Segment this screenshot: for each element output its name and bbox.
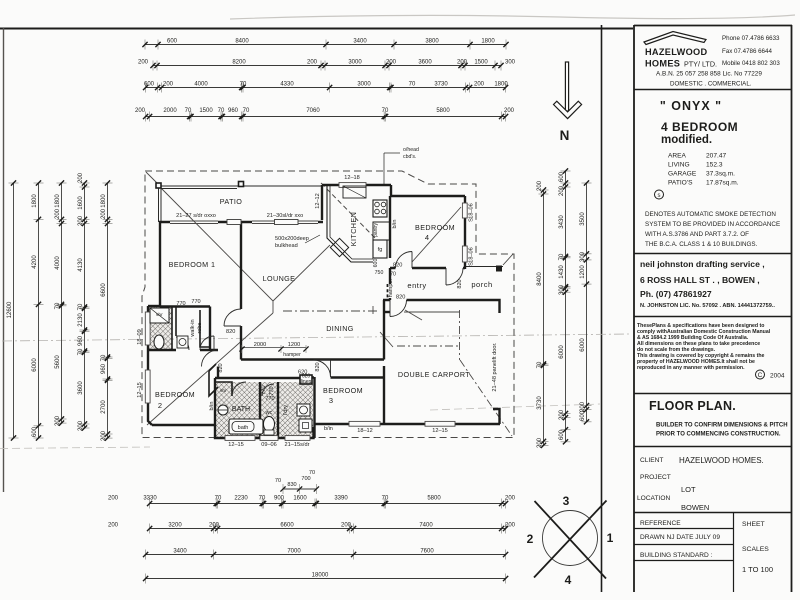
svg-text:70: 70 <box>259 496 266 502</box>
ensuite / wir north wall <box>160 305 210 307</box>
svg-text:l'dry: l'dry <box>283 405 289 415</box>
svg-text:FLOOR PLAN.: FLOOR PLAN. <box>649 399 736 413</box>
svg-text:3600: 3600 <box>78 381 84 395</box>
bath shower corner <box>216 382 232 396</box>
svg-text:300: 300 <box>559 284 565 295</box>
bedroom2 west wall with window gap <box>148 350 152 425</box>
svg-text:4: 4 <box>565 573 572 587</box>
svg-text:fg: fg <box>378 247 383 253</box>
svg-text:70: 70 <box>390 272 396 278</box>
svg-text:HAZELWOOD: HAZELWOOD <box>645 47 707 57</box>
stove <box>373 200 387 217</box>
svg-text:600: 600 <box>144 82 155 88</box>
svg-text:70: 70 <box>218 108 225 114</box>
bed2 robe corner angled <box>209 364 218 396</box>
svg-text:3000: 3000 <box>357 82 371 88</box>
svg-text:70: 70 <box>78 348 84 355</box>
hall south / bed3 north wall <box>232 376 384 379</box>
svg-text:shr: shr <box>156 312 163 318</box>
svg-text:N. JOHNSTON LIC. No. 57092 . A: N. JOHNSTON LIC. No. 57092 . ABN. 144413… <box>640 303 775 309</box>
porch slab edge thin line <box>466 266 503 268</box>
smoke detector symbol <box>655 190 664 199</box>
svg-text:SHEET: SHEET <box>742 521 765 528</box>
svg-text:770: 770 <box>265 396 274 402</box>
svg-text:200: 200 <box>580 401 586 412</box>
svg-text:1800: 1800 <box>32 194 38 208</box>
svg-text:3800: 3800 <box>425 39 439 45</box>
svg-text:modified.: modified. <box>661 134 712 146</box>
page frame left border <box>3 28 5 492</box>
svg-text:600: 600 <box>373 259 379 268</box>
carport window 12-15 <box>425 421 455 426</box>
svg-text:1600: 1600 <box>293 496 307 502</box>
svg-text:1: 1 <box>607 531 614 545</box>
svg-text:cbd's.: cbd's. <box>403 154 416 160</box>
bedroom2 door <box>202 350 219 367</box>
svg-text:18–12: 18–12 <box>357 428 373 434</box>
wc east wall <box>277 382 279 438</box>
svg-text:BEDROOM 1: BEDROOM 1 <box>169 260 216 269</box>
svg-text:6000: 6000 <box>559 345 565 359</box>
ens/wir south wall <box>148 349 218 351</box>
lounge sliding door 21-30 <box>252 220 318 222</box>
svg-text:12600: 12600 <box>7 301 13 318</box>
svg-text:6600: 6600 <box>280 523 294 529</box>
svg-text:200: 200 <box>55 415 61 426</box>
dimension chain right col 1 <box>537 180 549 448</box>
svg-text:4130: 4130 <box>78 258 84 272</box>
svg-text:600: 600 <box>580 410 586 421</box>
dimension chain left col 3 <box>55 180 67 426</box>
svg-text:750: 750 <box>375 270 384 276</box>
svg-text:2: 2 <box>158 401 162 410</box>
bedroom1 east wall <box>240 222 242 360</box>
svg-text:b/in: b/in <box>324 426 333 432</box>
svg-text:12–15: 12–15 <box>432 428 448 434</box>
dimension chain top row 3 <box>143 82 508 93</box>
svg-text:hamper: hamper <box>388 279 394 298</box>
svg-text:200: 200 <box>135 108 146 114</box>
svg-text:BUILDING STANDARD :: BUILDING STANDARD : <box>640 552 713 559</box>
svg-text:3000: 3000 <box>348 60 362 66</box>
svg-text:820: 820 <box>396 295 405 301</box>
svg-text:DENOTES AUTOMATIC SMOKE DETECT: DENOTES AUTOMATIC SMOKE DETECTION <box>645 211 776 218</box>
title block frame <box>634 25 792 592</box>
faint construction line horizontal lower <box>0 447 150 449</box>
bedroom3 / carport south wall with window piers <box>314 423 501 425</box>
bedroom4 east wall with window piers <box>464 196 466 269</box>
svg-text:1 TO 100: 1 TO 100 <box>742 565 773 574</box>
svg-text:600: 600 <box>32 426 38 437</box>
svg-text:THE B.C.A. CLASS 1 & 10 BUILDI: THE B.C.A. CLASS 1 & 10 BUILDINGS. <box>645 241 758 248</box>
svg-text:200: 200 <box>559 185 565 196</box>
svg-text:200: 200 <box>138 60 149 66</box>
svg-text:A.B.N. 25 057 258 858 Lic.: A.B.N. 25 057 258 858 Lic. No 77229 <box>656 71 762 78</box>
svg-text:18–06: 18–06 <box>469 247 475 263</box>
svg-text:3430: 3430 <box>559 215 565 229</box>
svg-text:3600: 3600 <box>418 60 432 66</box>
roof ridge vertical stub <box>272 301 274 313</box>
svg-text:600: 600 <box>559 171 565 182</box>
windows: thin double lines in wall gaps <box>145 183 467 441</box>
hazelwood roof chevron logo <box>644 32 706 45</box>
tiled floor bathroom wc laundry block <box>216 382 313 437</box>
svg-text:6000: 6000 <box>580 338 586 352</box>
wc door arc <box>262 384 274 396</box>
svg-text:SCALES: SCALES <box>742 546 769 553</box>
entry front door <box>446 268 463 285</box>
svg-text:N: N <box>560 128 570 143</box>
svg-text:17.87sq.m.: 17.87sq.m. <box>706 180 739 187</box>
svg-text:200: 200 <box>537 180 543 191</box>
svg-text:200: 200 <box>457 60 468 66</box>
svg-text:wc: wc <box>265 410 273 416</box>
svg-text:7600: 7600 <box>420 549 434 555</box>
west wall bedroom1 <box>159 222 161 306</box>
svg-text:70: 70 <box>78 303 84 310</box>
svg-text:HOMES: HOMES <box>645 59 680 69</box>
svg-text:BEDROOM: BEDROOM <box>415 223 455 232</box>
carport roof dash-dot lines <box>397 310 512 436</box>
svg-text:REFERENCE: REFERENCE <box>640 520 681 527</box>
dining south wall <box>241 358 384 360</box>
svg-text:4 BEDROOM: 4 BEDROOM <box>661 120 738 134</box>
copyright symbol 2004 <box>756 370 765 379</box>
svg-text:770: 770 <box>176 301 185 307</box>
bedroom4 door <box>396 252 413 269</box>
roof hip diagonal NW corner to valley point <box>161 188 273 301</box>
eave / roof dashed outline <box>142 171 514 438</box>
svg-text:LOT: LOT <box>681 485 696 494</box>
svg-text:C: C <box>758 372 763 379</box>
svg-text:200: 200 <box>101 430 107 441</box>
svg-text:2130: 2130 <box>78 313 84 327</box>
svg-text:DINING: DINING <box>326 324 354 333</box>
dimension chain bottom row 1 <box>108 496 516 509</box>
svg-text:70: 70 <box>240 82 247 88</box>
svg-text:GARAGE: GARAGE <box>668 171 697 178</box>
small sub-dimension tier 830/700 above bottom row 1 <box>275 470 319 494</box>
svg-text:70: 70 <box>101 354 107 361</box>
svg-text:200: 200 <box>386 60 397 66</box>
bedroom2 east wall <box>217 367 219 379</box>
kitchen bulkhead dashed diagonal <box>321 183 376 239</box>
svg-text:900: 900 <box>274 496 285 502</box>
svg-text:600: 600 <box>167 39 178 45</box>
svg-text:1800: 1800 <box>55 194 61 208</box>
svg-text:820: 820 <box>218 363 224 372</box>
svg-text:PRIOR TO COMMENCING CONSTRUCTI: PRIOR TO COMMENCING CONSTRUCTION. <box>656 432 781 438</box>
dimension chain bottom row 4 <box>143 573 508 584</box>
bedroom1 door <box>224 309 241 326</box>
svg-text:" ONYX ": " ONYX " <box>660 99 722 113</box>
svg-text:820: 820 <box>315 362 321 371</box>
svg-text:3400: 3400 <box>173 549 187 555</box>
svg-text:3390: 3390 <box>334 496 348 502</box>
svg-text:200: 200 <box>108 496 119 502</box>
svg-text:21–27 s/dr oxxo: 21–27 s/dr oxxo <box>176 213 216 219</box>
svg-text:6000: 6000 <box>32 358 38 372</box>
tiled floor ensuite <box>149 306 172 350</box>
dimension chain right col 3 <box>580 180 592 424</box>
north arrow <box>554 62 582 119</box>
svg-text:70: 70 <box>243 108 250 114</box>
svg-text:KITCHEN: KITCHEN <box>349 212 358 246</box>
wc window 09-06 <box>260 436 278 441</box>
carport door <box>390 300 407 317</box>
svg-text:7400: 7400 <box>419 523 433 529</box>
svg-text:PTY/ LTD.: PTY/ LTD. <box>684 60 717 69</box>
ensuite door <box>176 337 189 350</box>
svg-text:2: 2 <box>527 532 534 546</box>
svg-text:bulkhead: bulkhead <box>275 243 298 249</box>
svg-text:7000: 7000 <box>287 549 301 555</box>
roof hip diagonal porch corner <box>503 254 513 265</box>
svg-text:Fax 07.4786 6644: Fax 07.4786 6644 <box>722 48 772 55</box>
svg-text:1200: 1200 <box>580 265 586 279</box>
interior dim 2000 / 1200 with hamper <box>239 342 308 358</box>
svg-text:Ph. (07) 47861927: Ph. (07) 47861927 <box>640 289 712 299</box>
svg-text:5800: 5800 <box>436 108 450 114</box>
svg-text:3: 3 <box>329 396 333 405</box>
laundry door 21-15 <box>285 436 310 441</box>
svg-text:200: 200 <box>537 437 543 448</box>
svg-text:BATH: BATH <box>232 406 250 413</box>
bed2 window 12-15 <box>145 370 150 403</box>
svg-text:70: 70 <box>185 108 192 114</box>
svg-text:21–30sl/dr xxo: 21–30sl/dr xxo <box>267 213 303 219</box>
hamper closet wall near dining <box>384 311 390 313</box>
ens window 18-09 <box>145 312 150 345</box>
svg-text:200: 200 <box>101 208 107 219</box>
svg-text:DRAWN NJ DATE JULY 09: DRAWN NJ DATE JULY 09 <box>640 534 720 541</box>
dimension chain left col 4 <box>78 172 90 431</box>
svg-text:pantry: pantry <box>373 223 379 237</box>
svg-text:830: 830 <box>287 482 296 488</box>
svg-text:PATIO'S: PATIO'S <box>668 180 693 187</box>
pantry shelves <box>373 222 390 240</box>
frame divider line between plan and title block <box>601 25 603 592</box>
svg-text:960: 960 <box>101 363 107 374</box>
svg-text:LIVING: LIVING <box>668 162 690 169</box>
svg-text:3200: 3200 <box>168 523 182 529</box>
svg-text:LOCATION: LOCATION <box>637 495 670 502</box>
svg-text:70: 70 <box>55 302 61 309</box>
svg-text:BEDROOM: BEDROOM <box>323 386 363 395</box>
svg-text:700: 700 <box>301 476 310 482</box>
svg-text:PATIO: PATIO <box>220 197 243 206</box>
roof valley diagonal to kitchen <box>273 245 330 301</box>
central spine wall kitchen-hall <box>389 196 391 300</box>
svg-text:7060: 7060 <box>306 108 320 114</box>
eave corner tick <box>146 172 158 184</box>
svg-text:70: 70 <box>537 361 543 368</box>
svg-text:3400: 3400 <box>353 39 367 45</box>
svg-text:CLIENT: CLIENT <box>640 457 663 464</box>
patio posts <box>156 183 161 188</box>
carport / entry south wall <box>383 299 493 301</box>
svg-text:70: 70 <box>215 496 222 502</box>
bath block south drop walls <box>215 425 314 438</box>
svg-text:300: 300 <box>580 251 586 262</box>
svg-text:4000: 4000 <box>55 256 61 270</box>
svg-text:2000: 2000 <box>163 108 177 114</box>
kitchen window 12-18 <box>339 183 366 188</box>
dimension chain top row 2 <box>138 60 516 71</box>
svg-text:entry: entry <box>407 281 426 290</box>
svg-text:200: 200 <box>559 409 565 420</box>
svg-text:b/in: b/in <box>392 220 398 229</box>
svg-text:LOUNGE: LOUNGE <box>263 274 296 283</box>
bath door <box>232 382 246 396</box>
svg-text:neil johnston drafting service: neil johnston drafting service , <box>640 259 765 269</box>
faint ridge construction line horizontal upper <box>2 334 630 341</box>
patio slab thin outline <box>159 186 323 222</box>
interior thin walls <box>172 307 312 397</box>
svg-text:4200: 4200 <box>32 255 38 269</box>
wir robe shelf <box>200 310 209 347</box>
dimension chain left col 5 <box>101 180 113 441</box>
svg-text:200: 200 <box>307 60 318 66</box>
svg-text:3500: 3500 <box>580 212 586 226</box>
svg-text:DOMESTIC . COMMERCIAL.: DOMESTIC . COMMERCIAL. <box>670 81 752 88</box>
svg-text:207.47: 207.47 <box>706 153 727 160</box>
dimension chain left col 2 <box>32 180 44 440</box>
svg-text:Phone 07.4786 6633: Phone 07.4786 6633 <box>722 35 780 42</box>
svg-text:4: 4 <box>425 233 429 242</box>
svg-text:bath: bath <box>238 425 249 431</box>
svg-text:200: 200 <box>505 496 516 502</box>
svg-text:70: 70 <box>309 470 315 476</box>
kitchen north exterior wall <box>322 185 391 220</box>
svg-text:BOWEN: BOWEN <box>681 503 709 512</box>
svg-text:1200: 1200 <box>288 342 300 348</box>
svg-text:2004: 2004 <box>770 373 785 380</box>
bed3 window 18-12 <box>349 421 380 426</box>
page top scan smudge <box>230 15 795 19</box>
svg-text:70: 70 <box>382 496 389 502</box>
wc toilet <box>264 417 275 436</box>
carport west wall <box>383 300 385 424</box>
svg-text:s: s <box>658 193 661 199</box>
bedroom1 sliding door to patio 21-27 <box>170 220 218 222</box>
svg-text:BUILDER TO CONFIRM DIMENSIONS: BUILDER TO CONFIRM DIMENSIONS & PITCH <box>656 423 788 429</box>
svg-text:shr: shr <box>220 388 227 394</box>
kitchen bench edge <box>327 186 373 262</box>
carport south-east stub wall <box>493 409 500 424</box>
svg-text:820: 820 <box>393 263 402 269</box>
svg-text:200: 200 <box>504 108 515 114</box>
svg-text:18000: 18000 <box>312 573 329 579</box>
svg-text:AREA: AREA <box>668 153 687 160</box>
svg-text:12–15: 12–15 <box>228 442 244 448</box>
main exterior walls <box>148 185 500 438</box>
svg-text:70: 70 <box>409 82 416 88</box>
svg-text:200: 200 <box>163 82 174 88</box>
svg-text:500x200deep: 500x200deep <box>275 236 309 242</box>
kitchen fittings <box>327 186 390 262</box>
svg-text:S: S <box>469 218 475 222</box>
bedroom4 north wall <box>391 185 465 196</box>
svg-text:porch: porch <box>471 280 492 289</box>
orientation circle symbol <box>527 494 614 587</box>
svg-text:8400: 8400 <box>537 272 543 286</box>
svg-text:200: 200 <box>55 208 61 219</box>
roof hip diagonal SW to bedroom2 corner <box>147 313 273 425</box>
carport hip short diagonals <box>405 310 422 320</box>
svg-text:3: 3 <box>563 494 570 508</box>
svg-text:3730: 3730 <box>434 82 448 88</box>
svg-text:200: 200 <box>341 523 352 529</box>
bed4 windows 18-06 <box>462 203 467 218</box>
svg-text:1500: 1500 <box>474 60 488 66</box>
dimension chain bottom row 2 <box>108 523 516 534</box>
page frame top border <box>0 28 633 30</box>
svg-text:770: 770 <box>191 299 200 305</box>
copyright fine print <box>637 323 771 371</box>
svg-text:1600: 1600 <box>78 196 84 210</box>
svg-text:70: 70 <box>275 478 281 484</box>
dimension chain top row 1 <box>142 39 508 50</box>
dimension chain right col 2 <box>559 168 571 444</box>
svg-text:70: 70 <box>559 253 565 260</box>
west step jog at ensuite <box>148 305 160 307</box>
faint construction line right segment <box>430 404 600 410</box>
svg-text:HAZELWOOD HOMES.: HAZELWOOD HOMES. <box>679 456 764 465</box>
svg-text:21–48 panelift door.: 21–48 panelift door. <box>492 342 498 392</box>
bedroom3 door <box>314 360 331 377</box>
svg-text:820: 820 <box>457 279 463 288</box>
svg-text:09–06: 09–06 <box>261 442 277 448</box>
svg-text:1800: 1800 <box>101 194 107 208</box>
svg-text:1430: 1430 <box>559 265 565 279</box>
bathroom fixtures <box>218 405 263 434</box>
svg-text:2230: 2230 <box>234 496 248 502</box>
wir east wall <box>209 307 211 351</box>
svg-text:12–15: 12–15 <box>137 382 143 398</box>
svg-text:152.3: 152.3 <box>706 162 723 169</box>
svg-text:3730: 3730 <box>537 396 543 410</box>
svg-text:4330: 4330 <box>280 82 294 88</box>
svg-text:BEDROOM: BEDROOM <box>155 390 195 399</box>
svg-text:PROJECT: PROJECT <box>640 474 671 481</box>
dimension chain left col 1 <box>7 180 19 440</box>
laundry east / bedroom3 west wall <box>313 377 315 438</box>
bedroom1/lounge north wall (onto patio) <box>159 221 323 223</box>
svg-text:1800: 1800 <box>494 82 508 88</box>
svg-text:1800: 1800 <box>481 39 495 45</box>
svg-text:960: 960 <box>228 108 239 114</box>
svg-text:robe: robe <box>197 322 203 333</box>
svg-text:1500: 1500 <box>199 108 213 114</box>
carport north-east stub wall <box>493 300 500 313</box>
svg-text:6 ROSS HALL ST . , BOWEN: 6 ROSS HALL ST . , BOWEN , <box>640 275 760 285</box>
svg-text:5800: 5800 <box>427 496 441 502</box>
svg-text:200: 200 <box>474 82 485 88</box>
svg-text:DOUBLE CARPORT: DOUBLE CARPORT <box>398 370 470 379</box>
svg-text:200: 200 <box>78 215 84 226</box>
svg-text:18–09: 18–09 <box>137 329 143 345</box>
porch post <box>496 266 502 272</box>
svg-text:WITH A.S.3786 AND PART 3.7.2.: WITH A.S.3786 AND PART 3.7.2. OF <box>645 231 749 238</box>
svg-text:3330: 3330 <box>143 496 157 502</box>
svg-text:Mobile 0418 802 303: Mobile 0418 802 303 <box>722 60 780 67</box>
dimension chain bottom row 3 <box>143 549 508 560</box>
ensuite fixtures <box>150 308 188 349</box>
svg-text:8400: 8400 <box>235 39 249 45</box>
svg-text:reproduced in any manner with: reproduced in any manner with permission… <box>637 365 745 371</box>
svg-text:620: 620 <box>298 370 307 376</box>
